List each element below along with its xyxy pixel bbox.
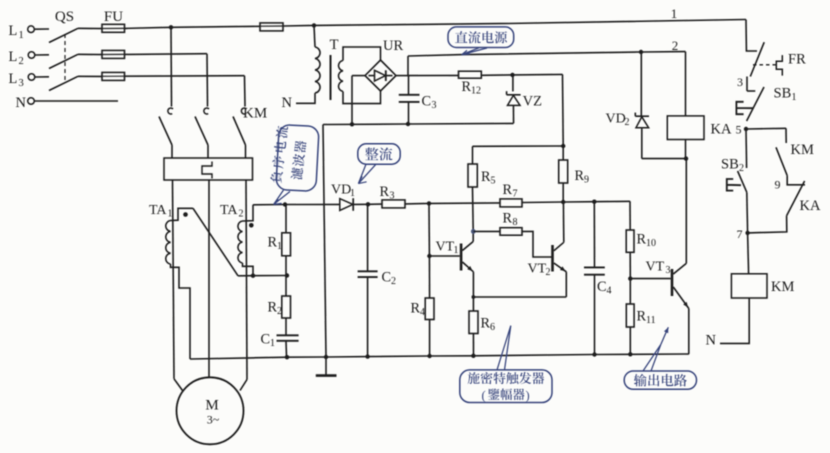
svg-text:10: 10	[646, 238, 656, 249]
svg-text:R: R	[411, 301, 421, 317]
svg-text:(: (	[482, 388, 486, 402]
svg-text:TA: TA	[220, 203, 238, 218]
svg-text:R: R	[637, 309, 647, 325]
svg-text:SB: SB	[721, 157, 739, 173]
svg-text:R: R	[503, 211, 513, 227]
svg-text:2: 2	[19, 56, 24, 67]
svg-text:QS: QS	[55, 9, 74, 25]
svg-text:7: 7	[737, 227, 743, 241]
svg-text:2: 2	[739, 163, 744, 174]
svg-text:2: 2	[546, 267, 551, 278]
svg-text:R: R	[268, 300, 278, 316]
svg-text:4: 4	[420, 307, 425, 318]
svg-text:3: 3	[666, 265, 671, 276]
svg-text:FU: FU	[104, 9, 123, 25]
svg-text:R: R	[575, 168, 585, 184]
svg-text:1: 1	[792, 92, 797, 103]
svg-text:2: 2	[277, 306, 282, 317]
svg-text:1: 1	[671, 6, 678, 21]
svg-text:11: 11	[646, 315, 656, 326]
svg-text:R: R	[462, 79, 472, 95]
svg-text:KA: KA	[711, 122, 732, 138]
svg-text:1: 1	[350, 188, 355, 199]
svg-text:1: 1	[270, 338, 275, 349]
svg-text:L: L	[9, 49, 18, 65]
svg-text:3: 3	[737, 75, 743, 89]
svg-text:VT: VT	[646, 260, 665, 275]
svg-text:N: N	[706, 333, 717, 349]
svg-text:R: R	[637, 232, 647, 248]
svg-text:3: 3	[390, 191, 395, 202]
svg-text:R: R	[268, 235, 278, 251]
svg-text:3: 3	[432, 100, 437, 111]
svg-text:12: 12	[471, 86, 481, 97]
svg-text:VT: VT	[436, 240, 455, 255]
svg-text:9: 9	[584, 175, 589, 186]
svg-text:1: 1	[454, 245, 459, 256]
svg-text:C: C	[597, 279, 607, 295]
svg-text:): )	[526, 388, 530, 402]
svg-text:1: 1	[168, 209, 173, 220]
svg-text:R: R	[481, 316, 491, 332]
svg-text:1: 1	[277, 241, 282, 252]
svg-text:VZ: VZ	[523, 94, 542, 110]
svg-text:R: R	[380, 184, 390, 200]
svg-text:2: 2	[625, 117, 630, 128]
svg-text:3: 3	[19, 78, 24, 89]
svg-text:T: T	[330, 37, 339, 53]
svg-text:2: 2	[672, 38, 679, 53]
svg-text:KM: KM	[243, 106, 267, 122]
svg-text:M: M	[205, 398, 218, 414]
svg-text:SB: SB	[774, 86, 792, 102]
svg-text:C: C	[261, 332, 271, 348]
svg-text:L: L	[9, 71, 18, 87]
svg-text:TA: TA	[149, 203, 167, 218]
svg-text:N: N	[282, 95, 293, 111]
svg-text:6: 6	[490, 322, 495, 333]
svg-text:UR: UR	[383, 38, 403, 54]
svg-text:C: C	[382, 270, 392, 286]
svg-text:1: 1	[19, 30, 24, 41]
svg-text:2: 2	[239, 209, 244, 220]
svg-text:VD: VD	[606, 112, 626, 127]
svg-text:VD: VD	[331, 183, 351, 198]
svg-text:KA: KA	[800, 198, 821, 214]
svg-text:L: L	[9, 23, 18, 39]
svg-text:R: R	[481, 169, 491, 185]
svg-text:3~: 3~	[207, 413, 220, 427]
svg-text:R: R	[503, 182, 513, 198]
svg-text:C: C	[422, 94, 432, 110]
svg-text:KM: KM	[791, 142, 814, 158]
svg-text:2: 2	[391, 276, 396, 287]
svg-text:8: 8	[513, 217, 518, 228]
svg-text:FR: FR	[788, 52, 806, 68]
svg-text:5: 5	[491, 176, 496, 187]
svg-text:5: 5	[736, 123, 742, 137]
svg-text:N: N	[16, 95, 27, 111]
svg-text:9: 9	[775, 178, 781, 192]
svg-text:7: 7	[513, 189, 518, 200]
svg-text:VT: VT	[528, 262, 547, 277]
svg-text:4: 4	[607, 286, 612, 297]
svg-text:KM: KM	[771, 279, 794, 295]
